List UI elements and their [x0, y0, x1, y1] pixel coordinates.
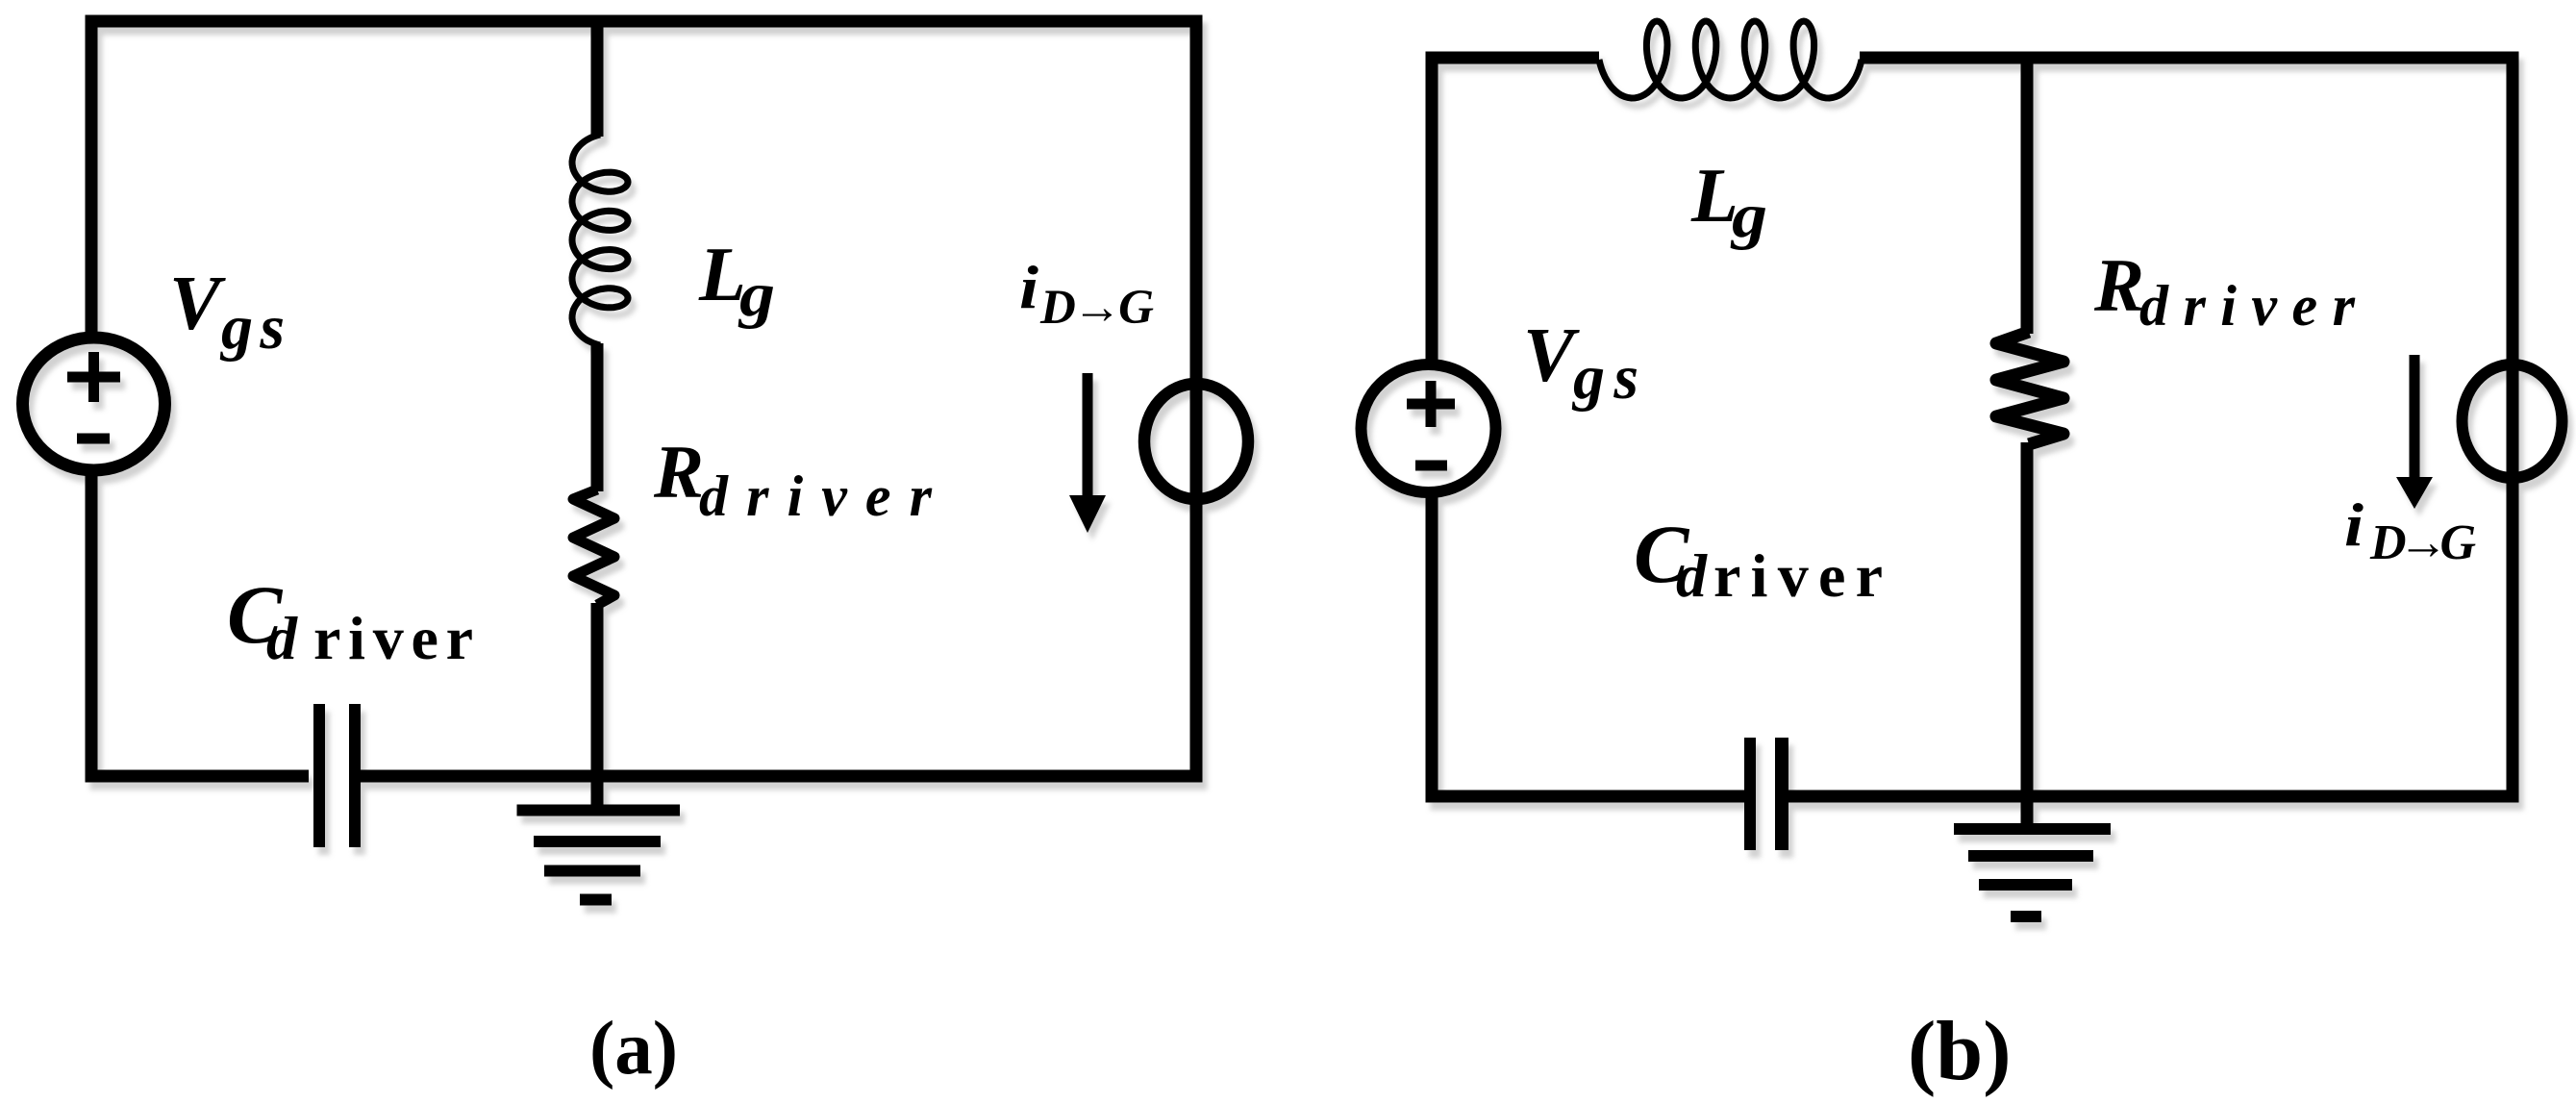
svg-text:R: R — [653, 430, 704, 514]
capacitor C_driver (b) left plate — [1744, 738, 1756, 850]
resistor Rdriver (a) zigzag — [573, 489, 614, 605]
arrow for iD-G (a) — [1083, 373, 1093, 498]
wire: left wire lower segment (a) — [86, 470, 98, 783]
svg-text:river: river — [1713, 541, 1883, 610]
wire: bottom wire left of capacitor (b) — [1426, 790, 1747, 803]
arrow for iD-G (b) — [2410, 355, 2420, 480]
svg-text:d: d — [266, 604, 298, 672]
voltage source Vgs (b) circle — [1362, 364, 1496, 492]
wire: bottom wire right of capacitor (b) — [1788, 790, 2519, 803]
svg-text:river: river — [313, 604, 473, 672]
svg-text:d: d — [1676, 541, 1708, 610]
svg-text:g: g — [738, 260, 775, 330]
svg-text:V: V — [1523, 314, 1580, 398]
wire: top wire right of inductor (b) — [1860, 52, 2519, 64]
wire: top wire of circuit (a) — [86, 15, 1203, 28]
svg-text:(a): (a) — [589, 1007, 678, 1091]
wire: middle branch between inductor and resistor (a) — [591, 343, 604, 491]
wire: bottom wire right of capacitor (a) — [361, 770, 1203, 783]
wire: right wire of circuit (b) — [2507, 52, 2519, 803]
capacitor C_driver (b) right plate — [1775, 738, 1788, 850]
svg-text:D→G: D→G — [2369, 515, 2476, 570]
capacitor C_driver (a) left plate — [313, 704, 325, 847]
wire: left wire lower segment (b) — [1426, 497, 1438, 803]
wire: top wire left of inductor (b) — [1426, 52, 1600, 64]
wire: bottom wire left of capacitor (a) — [86, 770, 310, 783]
voltage source Vgs (a) plus sign — [67, 352, 120, 402]
voltage source Vgs (b) plus sign — [1407, 381, 1455, 427]
capacitor C_driver (a) right plate — [349, 704, 361, 847]
wire: middle branch top segment (b) — [2021, 52, 2034, 335]
wire: middle branch bottom segment into ground (a) — [591, 603, 604, 811]
wire: middle branch top segment (a) — [591, 15, 604, 138]
current source iD-G (a) circle — [1144, 384, 1248, 499]
inductor Lg (b) coil — [1599, 21, 1862, 98]
svg-text:(b): (b) — [1908, 1005, 2012, 1098]
resistor Rdriver (b) zigzag — [1996, 332, 2063, 444]
svg-text:R: R — [2093, 243, 2144, 327]
voltage source Vgs (b) minus sign — [1415, 461, 1447, 471]
svg-text:g: g — [1730, 181, 1767, 251]
svg-text:D→G: D→G — [1039, 281, 1154, 335]
ground symbol (a) — [517, 811, 681, 900]
svg-text:i: i — [2344, 490, 2363, 559]
voltage source Vgs (a) minus sign — [77, 434, 110, 444]
svg-text:i: i — [1019, 253, 1038, 321]
svg-text:V: V — [169, 262, 226, 346]
wire: right wire of circuit (a) — [1190, 15, 1203, 783]
current source iD-G (b) circle — [2463, 364, 2563, 478]
wire: left wire upper segment (a) — [86, 15, 98, 340]
wire: middle branch bottom segment into ground (b) — [2021, 442, 2034, 824]
wire: left wire upper segment (b) — [1426, 52, 1438, 361]
inductor Lg (a) coil — [572, 135, 628, 345]
svg-text:gs: gs — [219, 292, 285, 363]
ground symbol (b) — [1954, 829, 2111, 916]
voltage source Vgs (a) circle — [23, 338, 165, 470]
